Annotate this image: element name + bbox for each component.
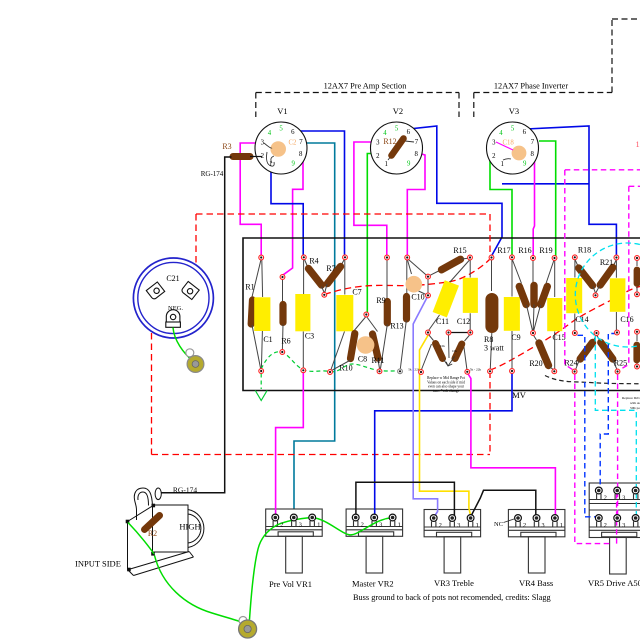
wire blue dashed B to VR5 upper lug2 [599, 334, 617, 491]
dashed box 12AX7 Pre Amp Section [256, 93, 459, 118]
svg-text:12AX7 Pre Amp Section: 12AX7 Pre Amp Section [324, 82, 408, 91]
svg-text:3: 3 [379, 521, 382, 528]
svg-text:5: 5 [395, 126, 399, 133]
svg-text:R20: R20 [529, 359, 542, 368]
svg-text:3: 3 [261, 140, 265, 147]
svg-text:Pre Vol VR1: Pre Vol VR1 [269, 579, 312, 589]
svg-text:3: 3 [299, 521, 302, 528]
jack body HIGH [153, 505, 189, 552]
svg-text:R15: R15 [453, 246, 466, 255]
C21 lug right [181, 281, 199, 299]
svg-text:3 watt: 3 watt [484, 344, 505, 353]
svg-text:3: 3 [622, 522, 625, 529]
svg-text:C11: C11 [436, 317, 449, 326]
svg-text:R18: R18 [578, 246, 591, 255]
svg-text:5: 5 [511, 126, 515, 133]
svg-text:Replace Drive: Replace Drive [622, 396, 640, 400]
wire V3 pin2 green to board [490, 156, 512, 255]
resistor R6 [281, 280, 290, 350]
wire magenta dashed box B [620, 186, 640, 369]
svg-text:Buss ground to back of pots no: Buss ground to back of pots not recomend… [353, 593, 551, 602]
svg-text:4: 4 [383, 130, 387, 137]
svg-text:R2: R2 [148, 529, 157, 538]
svg-text:9: 9 [523, 161, 527, 168]
red dashed wire curve in board [325, 260, 490, 295]
svg-text:R12: R12 [383, 137, 396, 146]
wire V2 pin8 magenta to board [407, 153, 425, 255]
svg-text:R9: R9 [376, 296, 385, 305]
svg-text:C3: C3 [305, 332, 314, 341]
edge resistor top right [636, 260, 638, 292]
svg-text:1: 1 [317, 521, 320, 528]
svg-text:RG-174: RG-174 [201, 170, 224, 178]
svg-text:C15: C15 [552, 333, 565, 342]
svg-text:2: 2 [376, 153, 380, 160]
input jack assembly [128, 488, 204, 576]
svg-text:3: 3 [622, 494, 625, 501]
note text mid pot [427, 376, 465, 393]
svg-text:7: 7 [299, 139, 303, 146]
svg-text:1: 1 [476, 522, 479, 529]
svg-text:VR4 Bass: VR4 Bass [519, 578, 553, 588]
svg-text:R3: R3 [222, 142, 231, 151]
svg-text:R1: R1 [245, 283, 254, 292]
wire magenta dashed box A [565, 170, 640, 370]
wire yellow to VR3 lug1 [420, 335, 471, 517]
wire blue dashed A to VR5 lower lug2 [578, 335, 599, 517]
resistors R14 trio fan [513, 260, 555, 331]
capacitor C21 filter can [133, 258, 213, 338]
resistor R24 [564, 335, 596, 369]
capacitor C16 [610, 260, 634, 331]
svg-text:5k - 22k: 5k - 22k [470, 368, 482, 372]
wire green jack to grommet [128, 523, 154, 555]
svg-text:3: 3 [376, 140, 380, 147]
svg-text:3: 3 [492, 140, 496, 147]
svg-text:C7: C7 [352, 288, 361, 297]
svg-text:5: 5 [279, 126, 283, 133]
wire V1 pin8 magenta to board [283, 154, 303, 275]
svg-text:with A2: with A2 [630, 401, 640, 405]
svg-text:V1: V1 [277, 106, 287, 116]
svg-text:2: 2 [523, 522, 526, 529]
svg-text:4: 4 [268, 130, 272, 137]
svg-text:2: 2 [604, 494, 607, 501]
svg-text:7: 7 [531, 139, 535, 146]
wire V1 pin3 magenta to board [240, 143, 262, 255]
svg-text:1: 1 [500, 161, 503, 168]
pins board mid-low row [426, 330, 431, 335]
wire green dashed ground bus [261, 352, 400, 372]
potentiometer VR2 body [346, 509, 403, 573]
svg-text:HIGH: HIGH [179, 522, 200, 532]
resistor R4 [305, 257, 325, 293]
capacitor C3 [295, 260, 314, 368]
svg-text:8: 8 [299, 151, 303, 158]
wire black dashed from R20 right [545, 376, 640, 384]
resistor R2 [145, 516, 160, 530]
tube socket V1 [255, 106, 307, 174]
svg-text:VR3 Treble: VR3 Treble [434, 578, 474, 588]
svg-text:VR5 Drive A50K: VR5 Drive A50K [588, 578, 640, 588]
lugs VR2 pins 2 3 1 [352, 514, 359, 521]
ground grommet bottom [239, 617, 257, 639]
wire V1 pin6 blue to board [292, 131, 345, 255]
svg-text:INPUT SIDE: INPUT SIDE [75, 559, 121, 569]
lugs VR4 pins 2 3 1 [515, 515, 522, 522]
potentiometer VR3 body [424, 510, 481, 574]
svg-text:C18: C18 [503, 139, 515, 146]
capacitor C12 [457, 260, 478, 331]
svg-text:R17: R17 [497, 246, 510, 255]
svg-text:1: 1 [269, 161, 272, 168]
resistor R13 [390, 260, 406, 369]
tube socket V2 [371, 106, 423, 174]
svg-text:RG-174: RG-174 [173, 486, 197, 495]
capacitor C11 [429, 260, 470, 331]
potentiometer VR5 body dual [589, 483, 640, 574]
wire V2 pin2 green to board [367, 154, 376, 313]
wire violet to VR3 lug2 [413, 298, 437, 518]
ground arrow green dashed [260, 374, 262, 390]
svg-text:12AX7 Phase Inverter: 12AX7 Phase Inverter [494, 82, 568, 91]
resistor R25 [597, 335, 627, 369]
resistor R8 3 watt [484, 260, 505, 369]
svg-text:R24: R24 [564, 359, 577, 368]
svg-text:1: 1 [398, 521, 401, 528]
svg-text:V2: V2 [393, 106, 403, 116]
svg-text:2: 2 [604, 522, 607, 529]
svg-text:6: 6 [407, 129, 411, 136]
lugs VR3 pins 2 3 1 [430, 515, 437, 522]
heater wire red dashed loop [152, 214, 491, 455]
wire V2 pin3 magenta to board [354, 142, 387, 255]
mid range pot module resistors [408, 335, 481, 372]
C21 lug NEG [166, 310, 180, 322]
capacitor C14 [566, 260, 588, 331]
resistor R15 [430, 246, 468, 275]
svg-text:6: 6 [291, 129, 295, 136]
wire RG-174 coax black [162, 157, 232, 493]
svg-text:tone. *volt change: tone. *volt change [433, 389, 460, 393]
svg-text:2: 2 [280, 521, 283, 528]
svg-text:C2: C2 [289, 139, 298, 146]
wire green grommet to VR1 lug1 [250, 518, 313, 620]
svg-text:R10: R10 [339, 364, 352, 373]
jack solder lugs [126, 504, 155, 572]
svg-text:8: 8 [414, 151, 418, 158]
svg-text:R6: R6 [281, 337, 290, 346]
svg-text:4: 4 [499, 130, 503, 137]
svg-text:10k: 10k [452, 349, 457, 353]
potentiometer VR4 body [508, 510, 565, 574]
wire V1 pin1 blue to board [271, 166, 303, 255]
lugs VR5 upper row [595, 487, 602, 494]
pins board middle [280, 275, 285, 280]
capacitor C1 [254, 260, 272, 369]
lugs VR5 lower row [595, 515, 602, 522]
svg-text:1: 1 [384, 161, 387, 168]
svg-text:1: 1 [560, 522, 563, 529]
wire V3 pin7 green to board [539, 141, 556, 256]
wire cyan dashed circle [575, 243, 640, 347]
svg-text:R21: R21 [600, 258, 613, 267]
resistor R7 [325, 260, 345, 293]
svg-text:C21: C21 [166, 274, 179, 283]
svg-text:2: 2 [492, 153, 496, 160]
svg-text:3: 3 [542, 522, 545, 529]
svg-text:R11: R11 [371, 356, 384, 365]
capacitor C15 [547, 260, 565, 369]
dashed box 12AX7 Phase Inverter [474, 19, 640, 117]
tube socket V3 [487, 106, 539, 174]
capacitor C7 [331, 260, 362, 370]
svg-text:9: 9 [291, 161, 295, 168]
svg-text:C9: C9 [511, 333, 520, 342]
pins board top row [259, 255, 264, 260]
svg-text:NC: NC [494, 521, 503, 528]
ground grommet left [186, 349, 204, 373]
svg-text:R7: R7 [326, 264, 335, 273]
resistor R20 [529, 335, 553, 370]
potentiometer VR1 body [266, 509, 323, 573]
svg-text:V3: V3 [509, 106, 519, 116]
resistor R12 [392, 139, 404, 156]
wire cyan dashed to VR5 lower lug1 [595, 336, 636, 517]
wire green C21 to ground grommet [173, 328, 194, 362]
svg-text:C12: C12 [457, 317, 470, 326]
red dashed wire curve right [490, 287, 640, 371]
svg-text:R16: R16 [518, 246, 531, 255]
svg-text:R4: R4 [309, 257, 318, 266]
svg-text:2: 2 [361, 521, 364, 528]
svg-text:10k: 10k [440, 344, 445, 348]
resistor R21 [596, 258, 616, 293]
pins board bottom row [259, 369, 264, 374]
wire black VR3 lug1 to VR4 lug3 [471, 490, 536, 517]
C21 lug left [146, 282, 164, 300]
wire magenta dashed to VR5 [575, 375, 618, 544]
svg-text:6: 6 [523, 129, 527, 136]
wire link C11-C12 bottom pins [451, 332, 469, 334]
resistor R9 [376, 260, 387, 369]
svg-text:12AX7: 12AX7 [636, 140, 640, 149]
note text right edge [622, 396, 640, 410]
svg-text:C10: C10 [411, 293, 424, 302]
svg-text:7: 7 [415, 139, 419, 146]
wire V3 pin6 blue branch [502, 183, 589, 185]
svg-text:C16: C16 [620, 315, 633, 324]
svg-text:R13: R13 [390, 322, 403, 331]
wire V1 pin7 teal to VR1 lug3 [294, 143, 335, 517]
lugs VR1 pins 2 3 1 [272, 514, 279, 521]
resistor R3 [233, 153, 250, 160]
main turret board outline [243, 238, 640, 391]
svg-text:Master VR2: Master VR2 [352, 579, 394, 589]
wire V3 pin6 blue to board [526, 126, 616, 255]
wire magenta midpot to VR4 lug1 [468, 374, 556, 518]
capacitor C8 with resistors R10 R11 [331, 317, 385, 373]
wire black VR2 lug2 to VR3 lug3 [356, 482, 455, 517]
capacitor C10 [406, 260, 429, 302]
wire magenta C3 to VR1 lug2 [276, 373, 304, 518]
edge resistor right [636, 334, 638, 366]
svg-text:MV: MV [512, 390, 527, 400]
svg-text:C1: C1 [263, 335, 272, 344]
wire V3 pin8 magenta to board [532, 153, 535, 257]
svg-text:2: 2 [439, 522, 442, 529]
resistor R18 [575, 246, 595, 293]
svg-text:9: 9 [407, 161, 411, 168]
svg-text:50K po: 50K po [630, 406, 640, 410]
wire blue C9 to VR2 lug3 [375, 373, 512, 517]
svg-text:3: 3 [457, 522, 460, 529]
svg-text:R19: R19 [539, 246, 552, 255]
wire V2 pin6 blue to board [409, 126, 502, 256]
capacitor C9 [504, 260, 521, 370]
wire green VR1 lug1 to VR2 lug1 [312, 518, 392, 535]
svg-text:C8: C8 [358, 355, 367, 364]
svg-text:8: 8 [530, 151, 534, 158]
resistor R1 [245, 260, 261, 369]
